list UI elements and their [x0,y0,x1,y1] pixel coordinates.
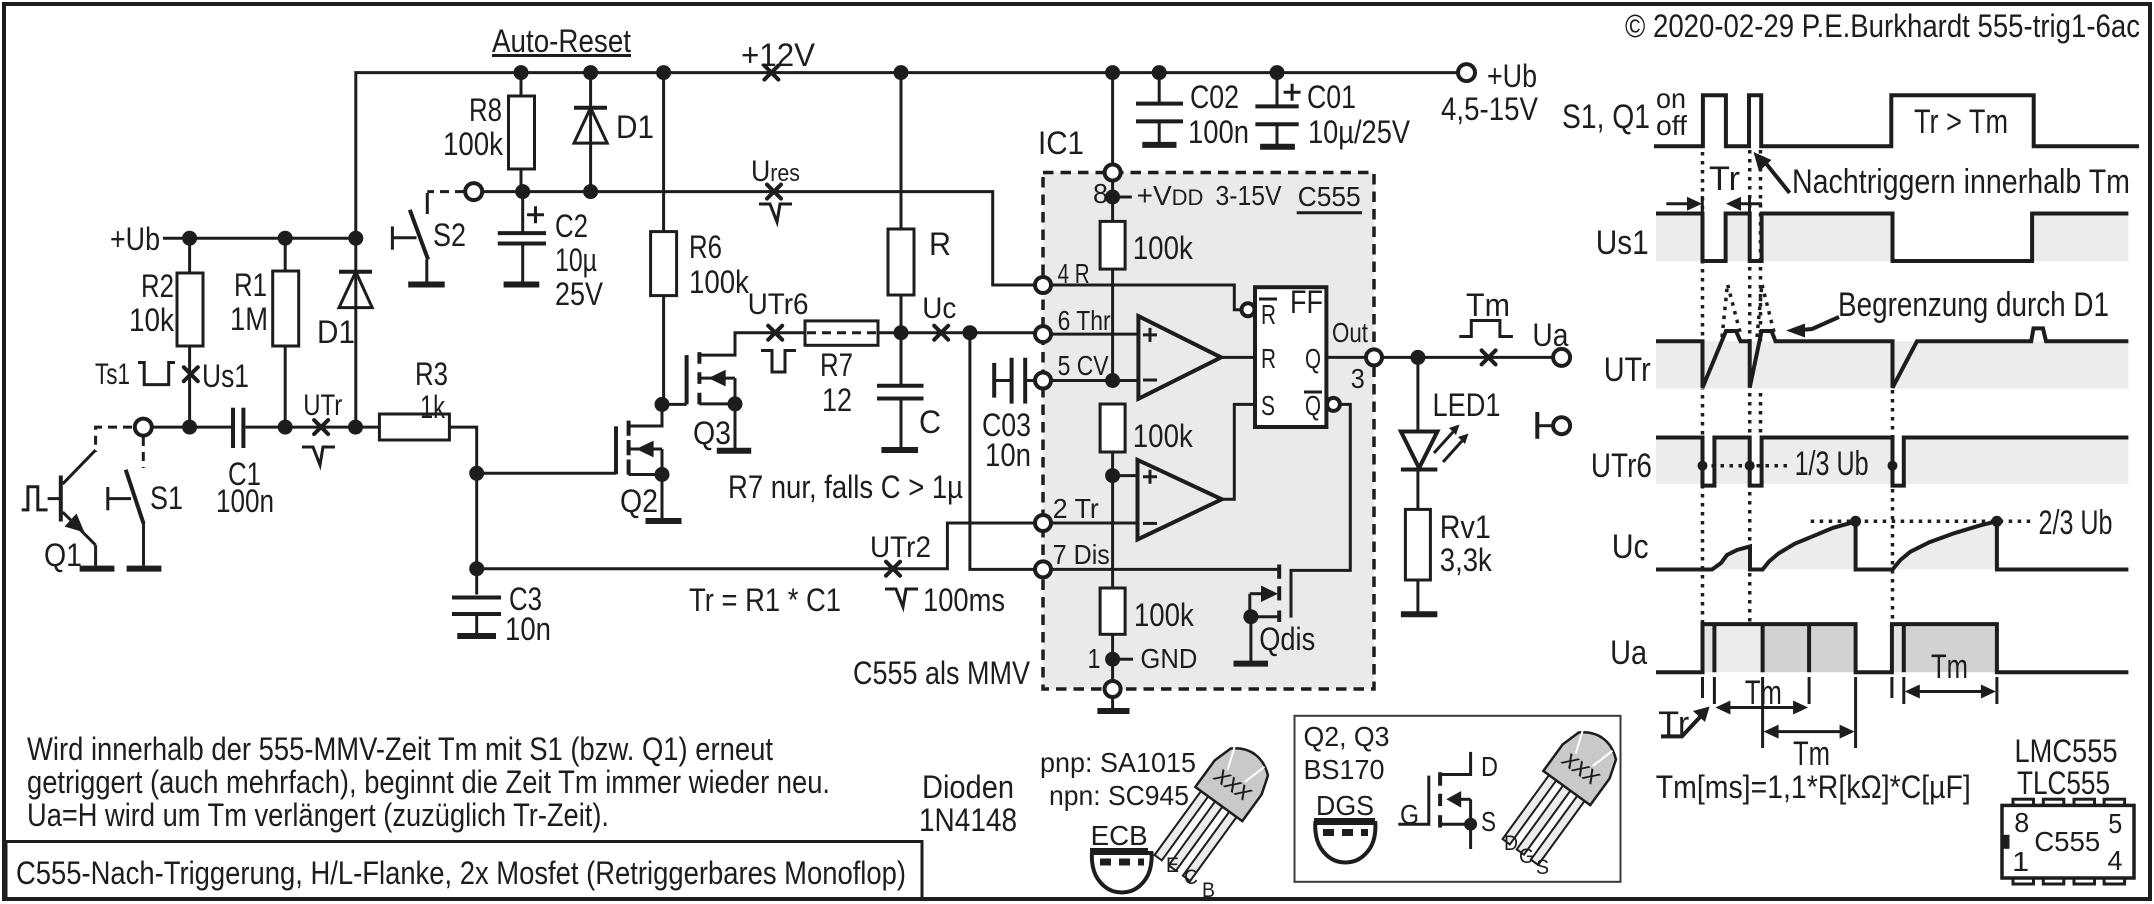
svg-text:C555: C555 [2034,826,2100,857]
svg-text:R7: R7 [820,347,853,383]
wire Q2 gate [477,472,616,475]
svg-text:S1, Q1: S1, Q1 [1562,98,1650,136]
resistor R7 (optional, dashed through) [805,321,878,345]
svg-text:1/3 Ub: 1/3 Ub [1795,445,1869,483]
svg-text:C555-Nach-Triggerung, H/L-Flan: C555-Nach-Triggerung, H/L-Flanke, 2x Mos… [16,855,906,891]
svg-text:Q2, Q3: Q2, Q3 [1304,721,1390,752]
svg-text:Tr > Tm: Tr > Tm [1914,103,2008,141]
capacitor C (timing) [877,384,924,388]
capacitor C03 [992,363,996,398]
svg-text:3-15V: 3-15V [1216,180,1282,211]
svg-text:3: 3 [1351,363,1365,394]
resistor 100k (upper, internal) [1100,221,1125,269]
svg-text:GND: GND [1140,643,1197,674]
pin 6 Thr [1035,326,1051,342]
box Q2,Q3 BS170 [1295,716,1621,882]
node x-mark on +12V rail [764,66,778,80]
svg-text:Uc: Uc [1612,528,1649,566]
svg-text:Tr = R1 * C1: Tr = R1 * C1 [689,582,841,618]
switch S1 [142,437,145,468]
svg-text:R3: R3 [415,356,448,392]
svg-text:Wird innerhalb der 555-MMV-Zei: Wird innerhalb der 555-MMV-Zeit Tm mit S… [27,731,773,767]
svg-text:UTr6: UTr6 [748,288,809,321]
svg-text:LED1: LED1 [1433,387,1501,423]
op-amp comparator 2 [1105,468,1120,483]
svg-text:Us1: Us1 [202,358,249,394]
svg-text:100k: 100k [1134,597,1195,633]
svg-text:2/3 Ub: 2/3 Ub [2039,504,2113,542]
node x-mark UTr6 [768,326,782,340]
op-amp comparator 1 [1138,316,1221,399]
svg-text:C555 als MMV: C555 als MMV [853,655,1031,691]
wire Uc to pin7 [970,333,1036,570]
svg-text:BS170: BS170 [1304,754,1385,785]
resistor Rv1 [1405,509,1430,580]
svg-text:10k: 10k [129,302,175,338]
resistor R3 [379,414,449,440]
package C555 DIP-8 [2013,799,2034,808]
resistor R1 [284,238,287,271]
svg-text:100k: 100k [1133,418,1194,454]
svg-text:C: C [1184,866,1198,889]
svg-text:S: S [1536,856,1549,879]
svg-text:Ures: Ures [751,155,800,188]
svg-text:R6: R6 [689,229,722,265]
svg-text:ECB: ECB [1091,820,1148,851]
svg-text:1N4148: 1N4148 [919,802,1017,838]
svg-text:Q: Q [1305,390,1321,421]
svg-text:Auto-Reset: Auto-Reset [492,23,631,59]
svg-text:R: R [1261,343,1276,374]
package TO-92 (ECB) [1149,737,1279,885]
wire UTr6 line [735,333,805,337]
svg-text:C2: C2 [555,208,588,244]
svg-text:Ua: Ua [1610,634,1647,672]
svg-text:25V: 25V [555,276,604,312]
svg-text:R1: R1 [234,267,267,303]
svg-text:Tm[ms]=1,1*R[kΩ]*C[µF]: Tm[ms]=1,1*R[kΩ]*C[µF] [1656,769,1971,805]
resistor R8 [520,73,523,96]
svg-text:2 Tr: 2 Tr [1053,493,1099,524]
node UTr6 pulse glyph [761,351,796,373]
wire UTr2 row [477,523,1036,569]
svg-text:R7 nur, falls C > 1µ: R7 nur, falls C > 1µ [728,469,963,505]
pin 4 R [1035,277,1051,293]
svg-text:+Ub: +Ub [110,221,160,257]
wire Ures row [482,192,1036,285]
svg-text:100ms: 100ms [923,582,1005,618]
capacitor C3 [469,466,484,481]
svg-text:G: G [1519,845,1534,868]
node Tm pulse glyph [1459,321,1513,337]
svg-text:12: 12 [822,382,852,418]
svg-text:100k: 100k [1133,230,1194,266]
svg-text:Out: Out [1332,317,1368,348]
node Q1 input pulse glyph [22,487,48,510]
svg-text:Uc: Uc [922,292,956,325]
terminal +Ub right [1458,64,1475,81]
diode D1 (clamp, left) [354,238,357,427]
svg-text:Q1: Q1 [44,537,82,573]
svg-text:R: R [1261,299,1276,330]
diode D1 (auto-reset) [589,73,592,192]
node UTr pulse glyph [302,447,335,465]
dimension Tm (pulse 2) [1890,677,1893,698]
svg-text:10n: 10n [505,611,551,647]
svg-text:10n: 10n [985,437,1031,473]
svg-text:DGS: DGS [1316,790,1374,821]
pin 5 CV [1035,373,1051,389]
svg-text:Q3: Q3 [693,415,731,451]
symbol TO-92 bottom view (DGS) [1315,823,1375,863]
svg-text:Nachtriggern innerhalb Tm: Nachtriggern innerhalb Tm [1792,163,2130,201]
pin 8 +VDD [1111,73,1114,164]
svg-text:R: R [929,226,951,262]
svg-text:B: B [1202,879,1215,902]
svg-text:getriggert (auch mehrfach), be: getriggert (auch mehrfach), beginnt die … [27,764,830,800]
svg-text:5: 5 [2108,808,2122,839]
svg-text:R2: R2 [141,268,174,304]
resistor R (timing) [900,73,903,229]
resistor R6 [662,73,665,232]
dotted guide verticals [1701,152,1705,672]
svg-text:UTr: UTr [303,389,342,422]
svg-text:S2: S2 [433,217,466,253]
svg-text:+Ub: +Ub [1487,58,1537,94]
svg-text:S1: S1 [150,480,183,516]
svg-text:Tm: Tm [1466,287,1510,323]
svg-text:Q2: Q2 [620,483,658,519]
svg-text:10µ: 10µ [555,242,597,278]
resistor 100k (middle, internal) [1100,404,1125,452]
dimension Tm (first) [1701,677,1704,698]
svg-text:100n: 100n [1188,114,1249,150]
svg-text:1k: 1k [420,389,446,425]
svg-text:Ua=H wird um Tm verlängert (zu: Ua=H wird um Tm verlängert (zuzüglich Tr… [27,797,609,833]
ground below pin1 [1111,698,1114,710]
svg-text:4,5-15V: 4,5-15V [1441,91,1539,127]
svg-text:Q: Q [1305,343,1321,374]
pin 7 Dis [1035,561,1051,577]
svg-text:1: 1 [2012,846,2029,877]
svg-text:1M: 1M [230,301,268,337]
pin 2 Tr [1035,515,1051,531]
svg-text:C01: C01 [1307,79,1356,115]
svg-text:8: 8 [2014,807,2029,838]
svg-text:S: S [1481,806,1496,837]
wire output Ua [1382,356,1553,359]
svg-text:npn: SC945: npn: SC945 [1049,780,1189,811]
svg-text:D: D [1504,832,1518,855]
svg-text:Begrenzung durch D1: Begrenzung durch D1 [1838,286,2109,324]
svg-text:8: 8 [1093,178,1108,209]
svg-text:Us1: Us1 [1596,224,1649,262]
svg-text:UTr2: UTr2 [870,531,931,564]
resistor 100k (lower, internal) [1100,588,1125,634]
svg-text:Ts1: Ts1 [95,358,130,391]
terminal S2/reset [465,183,482,200]
svg-text:R8: R8 [469,92,502,128]
wire +12V top rail [356,73,1458,239]
svg-text:TLC555: TLC555 [2017,765,2110,801]
svg-text:100n: 100n [216,483,274,519]
svg-text:LMC555: LMC555 [2015,733,2118,769]
node x-mark Us1 [184,367,198,381]
svg-text:C555: C555 [1298,181,1361,212]
svg-text:1: 1 [1088,643,1101,674]
capacitor C1 [231,408,235,448]
terminal Ua [1553,349,1570,366]
svg-text:UTr: UTr [1604,351,1651,389]
svg-text:Tr: Tr [1709,160,1740,198]
svg-text:Tm: Tm [1931,648,1968,686]
svg-text:C02: C02 [1190,79,1239,115]
node x-mark UTr [314,420,328,434]
svg-text:10µ/25V: 10µ/25V [1308,114,1411,150]
svg-text:7 Dis: 7 Dis [1053,539,1110,570]
svg-text:100k: 100k [443,126,504,162]
node x-mark Ures [767,185,781,199]
capacitor C02 [1158,73,1161,104]
svg-text:Tm: Tm [1793,735,1830,773]
junction dots on +12V rail [514,65,529,80]
capacitor C01 polarized [1276,73,1279,107]
svg-text:D1: D1 [317,314,355,350]
wire trigger row [152,426,231,429]
transistor Q3 [655,397,670,412]
wire +Ub row [163,237,356,240]
IC1 C555 dashed box [1043,173,1374,690]
svg-text:D1: D1 [616,109,654,145]
svg-text:4: 4 [2108,845,2123,876]
svg-text:Rv1: Rv1 [1440,509,1491,545]
svg-text:Qdis: Qdis [1259,621,1315,657]
svg-text:5 CV: 5 CV [1058,350,1109,381]
svg-text:+VDD: +VDD [1137,180,1204,211]
svg-text:FF: FF [1290,284,1323,320]
terminal trigger input [135,419,152,436]
node UTr2 pulse glyph [885,589,918,607]
symbol TO-92 bottom view (ECB) [1092,853,1152,893]
flip-flop FF [1255,287,1326,427]
transistor Q2 [614,426,618,474]
node x-mark Ua [1482,350,1496,364]
svg-text:© 2020-02-29 P.E.Burkhardt 555: © 2020-02-29 P.E.Burkhardt 555-trig1-6ac [1625,8,2140,44]
svg-text:3,3k: 3,3k [1440,542,1493,578]
svg-text:100k: 100k [689,264,750,300]
svg-text:6 Thr: 6 Thr [1058,305,1111,336]
svg-text:IC1: IC1 [1038,125,1084,161]
resistor R2 [188,238,191,273]
svg-text:C: C [919,404,941,440]
svg-text:pnp: SA1015: pnp: SA1015 [1040,747,1196,778]
svg-text:Dioden: Dioden [922,769,1014,805]
terminal UTr6 stub [1535,412,1539,439]
transistor Q1 [96,427,132,452]
svg-text:off: off [1656,110,1687,141]
node x-mark Uc [934,326,948,340]
svg-text:E: E [1166,854,1179,877]
node x-mark UTr2 [886,562,900,576]
svg-text:S: S [1261,390,1275,421]
svg-text:UTr6: UTr6 [1591,447,1652,485]
dimension Tm (second) [1761,677,1764,748]
switch S2 [427,190,464,193]
wire pin4 to FF R-bar [1051,285,1242,310]
package TO-92 (DGS) [1497,721,1627,869]
title box [6,842,922,899]
transistor Qdis [1277,565,1281,623]
capacitor C2 polarized [521,192,524,234]
node Ures pulse glyph [759,204,792,222]
LED LED1 [1416,357,1419,431]
svg-text:D: D [1481,751,1498,782]
